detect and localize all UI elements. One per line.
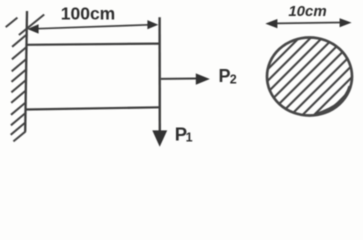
wall hatch 1 <box>12 34 27 47</box>
wall hatch 2 <box>12 47 27 60</box>
svg-text:100cm: 100cm <box>61 4 116 24</box>
svg-text:1: 1 <box>186 130 193 144</box>
dimension 10cm right arrowhead <box>340 18 352 27</box>
circle outline inner double-stroke bottom right <box>317 86 350 114</box>
dimension 100cm left arrowhead <box>27 24 38 33</box>
force P2 arrow shaft <box>161 78 198 80</box>
beam top edge <box>26 44 160 45</box>
svg-text:10cm: 10cm <box>288 3 326 20</box>
wall hatch stroke detached top <box>6 18 18 28</box>
wall hatch bottom tip <box>13 131 25 141</box>
dimension 100cm shaft <box>38 25 150 29</box>
beam bottom edge <box>26 107 160 109</box>
wall hatch 5 <box>11 80 26 93</box>
wall line <box>25 11 27 132</box>
svg-text:2: 2 <box>230 73 237 87</box>
wall hatch stroke crossing top <box>19 15 44 36</box>
wall hatch 3 <box>12 59 27 72</box>
wall hatch 4 <box>12 69 27 82</box>
dimension 100cm right arrowhead <box>147 20 158 29</box>
circle cross-section outline <box>267 38 352 116</box>
wall hatch 6 <box>11 90 26 103</box>
wall hatch 7 <box>11 102 26 115</box>
svg-text:P: P <box>219 66 231 86</box>
force P2 arrowhead <box>196 73 210 84</box>
force P1 arrowhead <box>152 130 167 146</box>
dimension 10cm left arrowhead <box>265 19 277 28</box>
wall hatch 8 <box>11 113 26 126</box>
beam right vertical line / P1 shaft <box>158 17 161 131</box>
dimension 10cm shaft <box>276 22 340 25</box>
circle hatching <box>217 0 363 120</box>
wall hatch 9 <box>11 122 26 135</box>
